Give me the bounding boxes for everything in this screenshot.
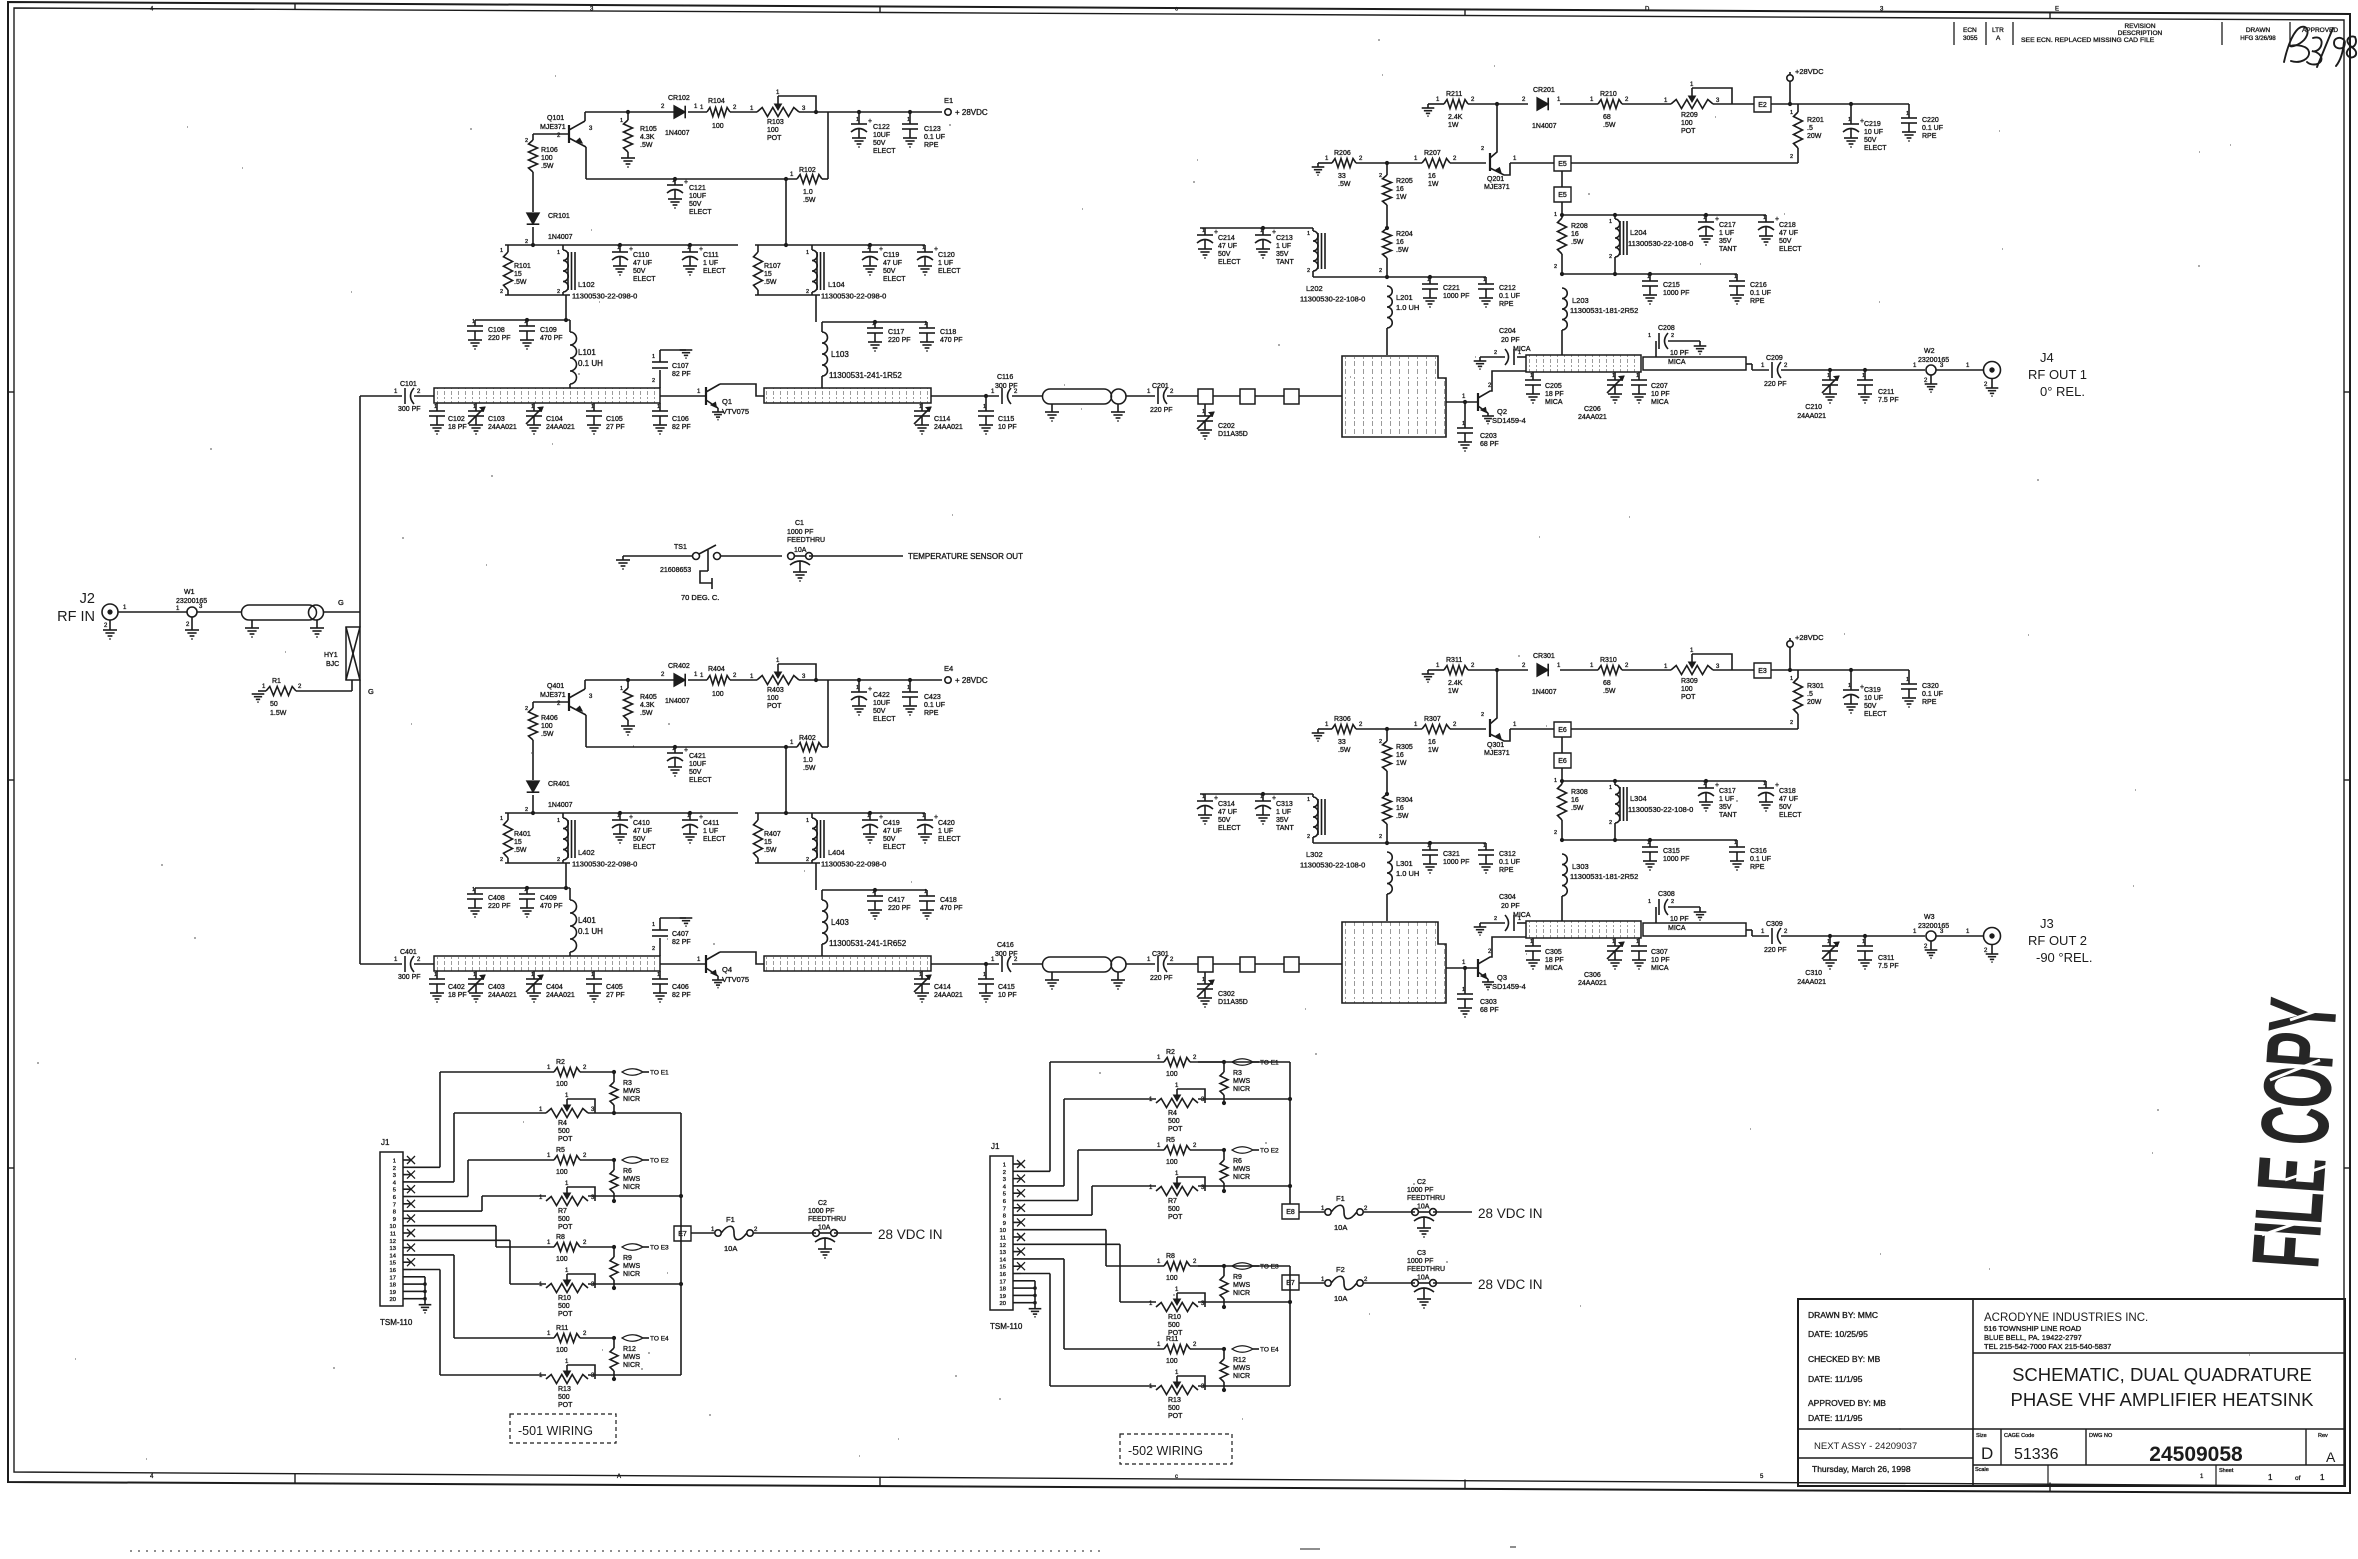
flag TO E1 [622,1069,643,1076]
wire strip2 to series cap [931,963,999,965]
svg-text:1: 1 [1483,843,1486,849]
terminal E2 [1754,97,1771,112]
svg-text:R9: R9 [1233,1274,1242,1281]
svg-text:Rev: Rev [2318,1433,2328,1439]
resistor R402 1.0 .5W [797,743,822,752]
svg-text:C419: C419 [883,820,900,827]
svg-text:C406: C406 [672,984,689,991]
wire upper choke row [1562,780,1766,782]
microstrip line 2 [764,388,931,403]
svg-text:C416: C416 [997,942,1014,949]
svg-text:100: 100 [1166,1071,1178,1078]
terminal E5 lower [1561,171,1563,187]
svg-text:NICR: NICR [1233,1373,1250,1380]
diode CR101 1N4007 [527,213,540,224]
svg-text:33: 33 [1338,739,1346,746]
svg-text:J1: J1 [991,1142,1000,1151]
svg-text:R311: R311 [1446,657,1462,664]
svg-text:3: 3 [393,1173,396,1179]
svg-text:POT: POT [767,135,782,142]
resistor R204 16 .5W [1385,226,1389,230]
svg-text:2: 2 [525,807,528,813]
svg-text:2: 2 [806,857,809,863]
svg-text:C320: C320 [1922,683,1939,690]
capacitor C310 24AA021 [1829,936,1831,946]
svg-text:0.1 UF: 0.1 UF [1750,290,1771,297]
svg-text:47 UF: 47 UF [633,828,652,835]
wire J1 pin 10 to R8 [1021,1229,1106,1231]
svg-text:500: 500 [1168,1206,1180,1213]
svg-text:500: 500 [1168,1405,1180,1412]
svg-text:7: 7 [1003,1206,1006,1212]
svg-text:J4: J4 [2040,350,2054,365]
svg-text:POT: POT [767,703,782,710]
svg-text:24AA021: 24AA021 [546,424,575,431]
svg-text:1: 1 [1703,215,1706,221]
hybrid HY1 BJC [346,627,360,680]
wire coax to HY1 [323,611,360,613]
svg-text:16: 16 [1000,1272,1006,1278]
svg-text:RF OUT 2: RF OUT 2 [2028,933,2087,948]
svg-text:TO E1: TO E1 [650,1070,669,1077]
capacitor C423 0.1 UF RPE [909,680,911,692]
capacitor C408 220 PF [475,887,570,889]
svg-text:PHASE VHF AMPLIFIER HEATSINK: PHASE VHF AMPLIFIER HEATSINK [2011,1389,2315,1410]
resistor R6 MWS NICR [1223,1150,1225,1160]
svg-text:1: 1 [1636,373,1639,379]
svg-text:1: 1 [472,319,475,325]
svg-text:C414: C414 [934,984,951,991]
svg-text:1: 1 [1483,277,1486,283]
svg-text:CR102: CR102 [668,95,690,102]
resistor R12 MWS NICR [613,1338,615,1348]
svg-text:1: 1 [1906,111,1909,117]
capacitor C404 24AA021 [533,971,535,979]
svg-text:1N4007: 1N4007 [665,130,690,137]
svg-text:10A: 10A [724,1244,737,1253]
svg-text:1000 PF: 1000 PF [787,529,813,536]
capacitor C306 24AA021 [1614,938,1616,946]
FILE COPY stamp [2233,995,2358,1271]
svg-text:c: c [1175,1474,1178,1480]
svg-text:47 UF: 47 UF [1218,809,1237,816]
svg-text:19: 19 [390,1290,396,1296]
wire J2 to W1 [118,611,187,613]
capacitor C103 24AA021 [475,403,477,411]
capacitor C415 10 PF [985,964,987,979]
capacitor C411 1 UF ELECT [689,813,691,820]
svg-text:+: + [868,118,872,125]
resistor R8 100 [554,1243,580,1252]
svg-text:POT: POT [558,1136,573,1143]
diode CR201 1N4007 [1537,98,1548,111]
svg-text:16: 16 [1571,797,1579,804]
svg-text:of: of [2295,1475,2301,1482]
svg-text:50V: 50V [883,268,896,275]
svg-text:1: 1 [856,117,859,123]
svg-text:18 PF: 18 PF [1545,391,1564,398]
resistor R304 16 .5W [1385,792,1389,796]
svg-text:7.5 PF: 7.5 PF [1878,963,1899,970]
svg-text:68 PF: 68 PF [1480,1007,1499,1014]
capacitor C403 24AA021 [475,971,477,979]
svg-text:R13: R13 [1168,1397,1181,1404]
diode CR301 1N4007 [1537,664,1548,677]
svg-text:0.1 UF: 0.1 UF [1922,125,1943,132]
terminal E3 [1754,663,1771,678]
choke L404 11300530-22-098-0 [811,813,813,818]
choke L302 11300530-22-108-0 [1312,794,1314,797]
svg-text:E6: E6 [1558,758,1567,765]
wire W1 to coax [197,611,242,613]
svg-text:1: 1 [620,118,623,124]
svg-text:C118: C118 [940,329,956,336]
svg-text:FEEDTHRU: FEEDTHRU [787,537,825,544]
capacitor C105 27 PF [593,403,595,411]
svg-text:MWS: MWS [623,1354,640,1361]
svg-text:1 UF: 1 UF [703,828,718,835]
wire E4 supply rail [585,679,674,681]
svg-text:10A: 10A [1417,1275,1430,1282]
svg-text:R201: R201 [1807,117,1824,124]
svg-text:-90 °REL.: -90 °REL. [2036,950,2093,965]
svg-text:50V: 50V [633,268,646,275]
svg-text:MWS: MWS [623,1088,640,1095]
pad block 3 [1255,395,1284,397]
svg-text:D: D [1981,1444,1993,1463]
svg-text:RPE: RPE [924,142,939,149]
flag TO E1 [1232,1059,1253,1066]
wire output [1781,935,1925,937]
size row [2000,1429,2002,1465]
svg-text:BLUE BELL, PA. 19422-2797: BLUE BELL, PA. 19422-2797 [1984,1333,2082,1342]
capacitor C212 0.1 UF RPE [1485,277,1487,284]
capacitor C211 7.5 PF [1864,370,1866,380]
svg-text:R3: R3 [623,1080,632,1087]
resistor R9 MWS NICR [1223,1266,1225,1276]
svg-text:TS1: TS1 [674,544,687,551]
svg-text:1: 1 [922,813,925,819]
wire F2 to C3 [1363,1282,1415,1284]
capacitor C221 1000 PF [1429,277,1431,284]
svg-text:1: 1 [1827,373,1830,379]
svg-text:VTV075: VTV075 [722,975,749,984]
svg-text:TANT: TANT [1276,825,1294,832]
svg-text:28 VDC IN: 28 VDC IN [1478,1206,1543,1221]
svg-text:R11: R11 [556,1325,568,1332]
svg-text:C205: C205 [1545,383,1562,390]
svg-text:C102: C102 [448,416,465,423]
capacitor C406 82 PF [659,971,661,979]
svg-text:.5W: .5W [1396,813,1409,820]
svg-text:Q301: Q301 [1487,742,1504,749]
resistor R205 16 1W [1386,163,1388,175]
svg-text:MICA: MICA [1668,359,1686,366]
handwritten approval signature [2284,27,2356,67]
svg-text:C303: C303 [1480,999,1497,1006]
svg-text:220 PF: 220 PF [888,905,911,912]
wire choke junction [1313,842,1486,844]
svg-text:2: 2 [806,289,809,295]
svg-text:J2: J2 [80,591,95,607]
svg-text:1: 1 [1609,785,1612,791]
svg-text:15: 15 [764,271,772,278]
svg-text:100: 100 [1681,686,1693,693]
capacitor C405 27 PF [593,971,595,979]
resistor R107 15 .5W [755,244,925,246]
svg-text:68: 68 [1603,680,1611,687]
terminal E7 [1282,1275,1299,1290]
svg-text:R209: R209 [1681,112,1698,119]
terminal E6 lower [1561,737,1563,753]
capacitor C422 10UF 50V ELECT [858,680,860,692]
wire TS1 to C1 [721,555,782,557]
svg-text:C103: C103 [488,416,505,423]
svg-text:100: 100 [712,123,724,130]
resistor R5 100 [554,1156,580,1165]
svg-text:J1: J1 [381,1138,390,1147]
capacitor C119 47 UF 50V ELECT [868,243,872,247]
svg-text:TO E1: TO E1 [1260,1060,1279,1067]
svg-text:C120: C120 [938,252,955,259]
svg-text:C207: C207 [1651,383,1668,390]
svg-text:7: 7 [393,1202,396,1208]
svg-text:1000 PF: 1000 PF [1443,859,1469,866]
svg-text:L203: L203 [1572,296,1589,305]
svg-text:CR301: CR301 [1533,653,1555,660]
svg-text:1: 1 [1554,212,1557,218]
svg-text:.5W: .5W [803,197,816,204]
svg-text:1: 1 [872,321,875,327]
wire supply rail right [1468,103,1528,105]
svg-text:C110: C110 [633,252,649,259]
svg-text:ELECT: ELECT [1779,246,1802,253]
svg-text:C1: C1 [795,520,804,527]
svg-text:1: 1 [1848,117,1851,123]
svg-text:C312: C312 [1499,851,1516,858]
capacitor C2 1000 PF FEEDTHRU 10A [1412,1209,1419,1216]
svg-text:C217: C217 [1719,222,1736,229]
wire gnd to TS1 [623,555,692,557]
svg-text:FEEDTHRU: FEEDTHRU [1407,1195,1445,1202]
svg-text:1W: 1W [1396,194,1407,201]
scale row [1973,1464,2345,1466]
svg-text:2: 2 [557,289,560,295]
svg-text:18 PF: 18 PF [448,424,467,431]
svg-text:RF IN: RF IN [57,609,95,625]
svg-text:21608653: 21608653 [660,567,691,574]
wire strip2 to series cap [931,395,999,397]
svg-text:R406: R406 [541,715,558,722]
svg-text:1: 1 [1648,333,1651,339]
svg-text:1: 1 [687,813,690,819]
svg-text:ELECT: ELECT [1218,825,1241,832]
svg-text:100: 100 [556,1169,568,1176]
svg-text:C208: C208 [1658,325,1675,332]
capacitor C304 20 PF MICA [1517,922,1526,924]
svg-text:ELECT: ELECT [633,844,656,851]
capacitor C121 10UF 50V ELECT [674,179,676,185]
svg-text:C306: C306 [1584,972,1601,979]
svg-text:POT: POT [558,1224,573,1231]
capacitor C313 1 UF 35V TANT [1262,794,1264,801]
svg-text:TO E4: TO E4 [1260,1347,1279,1354]
svg-text:R2: R2 [556,1059,565,1066]
transistor Q201 MJE371 [1489,153,1491,171]
inductor L201 1.0 UH [1387,286,1392,328]
svg-text:500: 500 [558,1394,570,1401]
svg-text:8: 8 [393,1210,396,1216]
svg-text:1: 1 [2320,1473,2325,1482]
svg-text:DATE: 11/1/95: DATE: 11/1/95 [1808,1374,1863,1384]
svg-text:.5W: .5W [640,710,653,717]
svg-text:10 PF: 10 PF [998,992,1017,999]
svg-text:1: 1 [1734,274,1737,280]
power amplifier module [1342,356,1446,437]
svg-text:1: 1 [620,686,623,692]
svg-text:1: 1 [473,404,476,410]
svg-text:SEE ECN. REPLACED MISSING CAD: SEE ECN. REPLACED MISSING CAD FILE [2021,37,2155,44]
svg-text:C318: C318 [1779,788,1796,795]
svg-text:1: 1 [1862,939,1865,945]
svg-text:C421: C421 [689,753,706,760]
svg-text:1 UF: 1 UF [938,260,953,267]
svg-text:-502 WIRING: -502 WIRING [1128,1444,1203,1458]
svg-text:APPROVED BY: MB: APPROVED BY: MB [1808,1398,1886,1408]
svg-text:R310: R310 [1600,657,1617,664]
svg-text:1: 1 [1462,987,1465,993]
svg-text:C117: C117 [888,329,904,336]
svg-text:G: G [338,598,344,607]
svg-text:E1: E1 [944,96,953,105]
capacitor C321 1000 PF [1429,843,1431,850]
svg-text:1: 1 [524,887,527,893]
svg-text:R205: R205 [1396,178,1413,185]
inductor L203 11300531-181-2R52 [1562,288,1567,330]
svg-text:16: 16 [1428,739,1436,746]
svg-text:D11A35D: D11A35D [1218,999,1248,1006]
svg-text:0.1 UF: 0.1 UF [1499,859,1520,866]
capacitor C401 300 PF [360,963,402,965]
resistor R206 33 .5W [1317,163,1319,167]
wire HY1 to lower amp input [359,680,361,964]
svg-text:TSM-110: TSM-110 [380,1318,413,1327]
svg-text:E4: E4 [944,664,953,673]
svg-text:20 PF: 20 PF [1501,337,1520,344]
svg-text:Q4: Q4 [722,965,732,974]
svg-text:R4: R4 [558,1120,567,1127]
svg-text:1: 1 [1427,277,1430,283]
svg-text:10UF: 10UF [689,193,706,200]
svg-text:18: 18 [1000,1287,1006,1293]
svg-text:2: 2 [1379,739,1382,745]
svg-text:E6: E6 [1558,727,1567,734]
svg-text:3055: 3055 [1963,35,1978,42]
wire bias row [585,715,587,747]
svg-text:2: 2 [1307,834,1310,840]
svg-text:15: 15 [1000,1265,1006,1271]
svg-text:R5: R5 [556,1147,565,1154]
svg-text:-501 WIRING: -501 WIRING [518,1424,593,1438]
svg-text:4.3K: 4.3K [640,134,655,141]
svg-text:10: 10 [390,1224,396,1230]
svg-text:100: 100 [1166,1358,1178,1365]
svg-text:MJE371: MJE371 [1484,184,1510,191]
svg-text:220 PF: 220 PF [1150,407,1173,414]
svg-text:R206: R206 [1334,150,1351,157]
svg-text:C310: C310 [1805,970,1822,977]
svg-text:POT: POT [1168,1214,1183,1221]
svg-text:C316: C316 [1750,848,1767,855]
svg-text:R308: R308 [1571,789,1588,796]
svg-text:1.0: 1.0 [803,189,813,196]
svg-text:MWS: MWS [1233,1166,1250,1173]
svg-text:C215: C215 [1663,282,1680,289]
capacitor C218 47 UF 50V ELECT [1765,215,1767,222]
svg-text:1000 PF: 1000 PF [808,1208,834,1215]
svg-text:15: 15 [514,271,522,278]
svg-text:35V: 35V [1276,251,1289,258]
svg-text:220 PF: 220 PF [488,903,511,910]
svg-text:+ 28VDC: + 28VDC [955,108,988,117]
connector J3 [1984,928,2001,945]
svg-text:24AA021: 24AA021 [1797,413,1826,420]
svg-text:C108: C108 [488,327,505,334]
svg-text:11300530-22-108-0: 11300530-22-108-0 [1300,861,1365,870]
svg-text:R105: R105 [640,126,657,133]
svg-text:2: 2 [1379,834,1382,840]
svg-text:C203: C203 [1480,433,1497,440]
svg-text:ECN: ECN [1963,27,1977,34]
wire J1 pin 10 to R8 [411,1225,496,1227]
coax delay line [242,605,317,620]
inductor L301 1.0 UH [1387,852,1392,894]
svg-text:50V: 50V [1218,251,1231,258]
svg-text:+: + [684,179,688,186]
svg-text:220 PF: 220 PF [488,335,511,342]
transistor Q301 MJE371 [1489,719,1491,737]
svg-text:1: 1 [557,818,560,824]
svg-text:24AA021: 24AA021 [934,992,963,999]
svg-text:C411: C411 [703,820,719,827]
capacitor C318 47 UF 50V ELECT [1765,781,1767,788]
svg-text:1: 1 [1202,794,1205,800]
svg-text:C403: C403 [488,984,505,991]
svg-text:c: c [1175,6,1178,12]
svg-text:35V: 35V [1719,238,1732,245]
capacitor C209 220 PF [1746,363,1752,365]
capacitor C302 D11A35D [1204,972,1206,984]
svg-text:ELECT: ELECT [883,844,906,851]
svg-text:50V: 50V [1864,137,1877,144]
potentiometer R309 100 POT [1671,666,1713,675]
svg-text:J3: J3 [2040,916,2054,931]
svg-text:220 PF: 220 PF [1764,947,1787,954]
svg-text:220 PF: 220 PF [1150,975,1173,982]
svg-text:C315: C315 [1663,848,1680,855]
svg-text:NEXT ASSY - 24209037: NEXT ASSY - 24209037 [1814,1441,1917,1452]
inductor L101 0.1 UH [569,320,571,332]
svg-text:W2: W2 [1924,348,1935,355]
wire supply bus upper [1198,1061,1290,1063]
svg-text:1: 1 [919,404,922,410]
svg-text:L404: L404 [828,848,845,857]
svg-text:47 UF: 47 UF [1779,796,1798,803]
svg-text:6: 6 [393,1195,396,1201]
svg-text:2: 2 [1494,916,1497,922]
wire bias row [585,147,587,179]
svg-text:1N4007: 1N4007 [1532,123,1557,130]
